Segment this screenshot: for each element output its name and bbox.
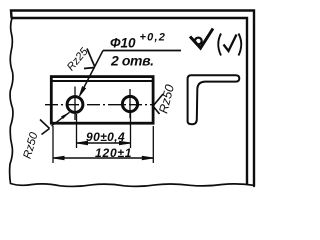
- svg-text:90±0,4: 90±0,4: [86, 130, 125, 144]
- svg-text:+0,2: +0,2: [140, 32, 167, 44]
- svg-text:Ф10: Ф10: [110, 36, 136, 51]
- svg-text:2 отв.: 2 отв.: [110, 52, 154, 68]
- svg-text:120±1: 120±1: [95, 146, 132, 160]
